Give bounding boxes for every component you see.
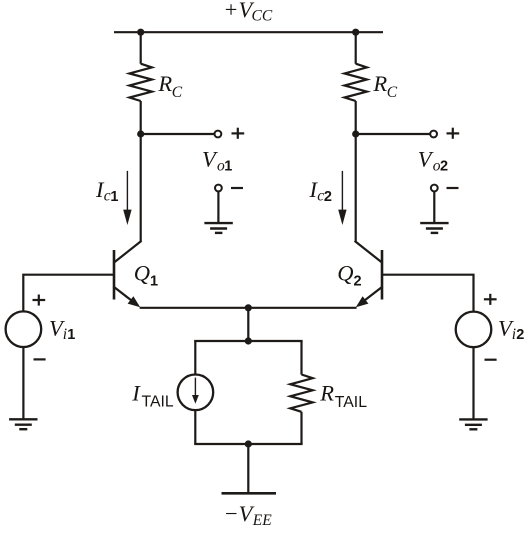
wire: emitter node down to tail pair bbox=[247, 308, 249, 341]
wire: tail bottom to -VEE bbox=[247, 444, 249, 492]
svg-text:C: C bbox=[387, 84, 398, 101]
polarity sign: Vo1 minus bbox=[231, 187, 243, 189]
junction dot: tail bottom bbox=[245, 440, 252, 447]
wire: tail bottom rail bbox=[194, 443, 302, 445]
transistor Q1 emitter diagonal with arrow bbox=[113, 287, 140, 308]
svg-text:R: R bbox=[372, 71, 387, 96]
label: +VCC supply bbox=[223, 0, 273, 25]
wire: node to Vo1 + terminal bbox=[141, 133, 215, 135]
transistor Q2 emitter diagonal with arrow bbox=[356, 287, 383, 308]
wire: Vi2 bottom to ground bbox=[472, 347, 474, 419]
label: Ic1 collector current bbox=[95, 177, 118, 205]
terminal: Vo2 + open circle bbox=[430, 131, 437, 138]
label: RTAIL resistor value bbox=[319, 381, 367, 411]
source Vi1 circle bbox=[6, 311, 42, 347]
svg-text:V: V bbox=[202, 147, 218, 172]
label: Vo1 output voltage bbox=[202, 147, 232, 175]
resistor RC (right) bbox=[345, 64, 367, 101]
svg-text:R: R bbox=[157, 71, 172, 96]
polarity sign: Vi1 minus bbox=[34, 358, 46, 360]
resistor RTAIL bbox=[290, 375, 312, 412]
svg-text:1: 1 bbox=[110, 189, 118, 205]
svg-text:−V: −V bbox=[224, 501, 255, 526]
ground: Vi1 ground bbox=[9, 419, 37, 429]
polarity sign: Vo2 minus bbox=[447, 187, 459, 189]
svg-text:2: 2 bbox=[440, 159, 448, 175]
svg-text:V: V bbox=[418, 147, 434, 172]
svg-text:1: 1 bbox=[224, 159, 232, 175]
wire: RC2 bottom to Q2 collector bbox=[355, 101, 357, 242]
svg-text:Q: Q bbox=[337, 261, 353, 286]
wire: VCC rail to RC2 top bbox=[355, 32, 357, 64]
polarity sign: Vi2 plus bbox=[484, 294, 497, 305]
svg-text:TAIL: TAIL bbox=[335, 394, 367, 411]
transistor Q2 base bar bbox=[381, 250, 384, 300]
polarity sign: Vo1 plus bbox=[232, 128, 245, 139]
current source ITAIL arrow bbox=[192, 378, 199, 404]
ground: Vi2 ground bbox=[459, 419, 487, 429]
label: Vo2 output voltage bbox=[418, 147, 448, 175]
polarity sign: Vi1 plus bbox=[33, 295, 46, 306]
svg-text:1: 1 bbox=[150, 274, 158, 290]
current arrow Ic1 bbox=[123, 171, 131, 225]
label: RC (right) value bbox=[372, 71, 397, 101]
terminal: Vo1 + open circle bbox=[215, 131, 222, 138]
source Vi2 circle bbox=[456, 312, 492, 348]
label: Ic2 collector current bbox=[309, 177, 332, 205]
svg-text:EE: EE bbox=[252, 512, 272, 529]
current arrow Ic2 bbox=[338, 171, 346, 225]
node: Vo2 output node junction dot bbox=[352, 130, 359, 137]
svg-text:R: R bbox=[319, 381, 334, 406]
wire: tail right branch lower bbox=[300, 412, 302, 444]
label: ITAIL current source value bbox=[131, 380, 174, 410]
polarity sign: Vo2 plus bbox=[447, 128, 460, 139]
label: RC (left) value bbox=[157, 71, 182, 101]
ground: Vo2 reference ground bbox=[420, 223, 448, 233]
junction dot: emitter rail to tail bbox=[245, 304, 252, 311]
ground: Vo1 reference ground bbox=[204, 223, 232, 233]
wire: Vo2 - terminal to ground bbox=[433, 192, 435, 224]
junction dot: tail top bbox=[245, 337, 252, 344]
resistor RC (left) bbox=[130, 64, 152, 101]
wire: Q2 base lead bbox=[382, 275, 474, 312]
svg-text:2: 2 bbox=[516, 327, 524, 343]
label: Vi1 input source bbox=[49, 316, 75, 343]
svg-text:C: C bbox=[172, 84, 183, 101]
wire: Vi1 bottom to ground bbox=[22, 347, 24, 419]
transistor Q1 collector diagonal bbox=[113, 241, 141, 263]
power symbol: -VEE bar bbox=[222, 492, 277, 495]
node: Vo1 output node junction dot bbox=[137, 130, 144, 137]
svg-text:2: 2 bbox=[324, 189, 332, 205]
wire: RC1 bottom to Q1 collector bbox=[140, 101, 142, 242]
svg-text:Q: Q bbox=[134, 261, 150, 286]
svg-text:CC: CC bbox=[252, 8, 273, 25]
label: -VEE supply bbox=[224, 501, 273, 529]
wire: VCC rail to RC1 top bbox=[140, 32, 142, 64]
transistor Q1 base bar bbox=[113, 250, 116, 300]
wire: emitter rail (common emitter node) bbox=[140, 307, 357, 309]
terminal: Vo1 - open circle bbox=[215, 185, 222, 192]
label: Vi2 input source bbox=[498, 316, 524, 343]
wire: tail left branch lower bbox=[194, 410, 196, 444]
wire: +VCC top rail bbox=[114, 31, 383, 33]
label: Q1 transistor designator bbox=[134, 261, 158, 290]
wire: tail left branch upper bbox=[194, 341, 196, 375]
wire: Vo1 - terminal to ground bbox=[217, 192, 219, 224]
svg-text:+V: +V bbox=[223, 0, 254, 22]
wire: tail top rail bbox=[194, 340, 302, 342]
current source ITAIL circle bbox=[178, 375, 214, 411]
label: Q2 transistor designator bbox=[337, 261, 361, 290]
svg-text:1: 1 bbox=[67, 327, 75, 343]
terminal: Vo2 - open circle bbox=[431, 185, 438, 192]
wire: tail right branch upper bbox=[300, 341, 302, 375]
svg-text:I: I bbox=[131, 380, 141, 405]
polarity sign: Vi2 minus bbox=[485, 359, 497, 361]
transistor Q2 collector diagonal bbox=[355, 241, 383, 263]
svg-text:TAIL: TAIL bbox=[142, 394, 174, 411]
svg-text:2: 2 bbox=[354, 274, 362, 290]
wire: node to Vo2 + terminal bbox=[356, 133, 430, 135]
junction dot: right collector to VCC rail bbox=[352, 29, 359, 36]
junction dot: left collector to VCC rail bbox=[137, 29, 144, 36]
wire: Q1 base lead bbox=[23, 275, 114, 312]
